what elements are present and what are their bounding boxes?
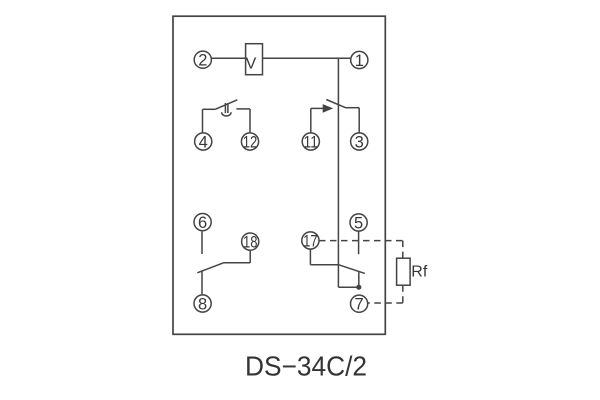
svg-text:DS−34C/2: DS−34C/2 (245, 350, 367, 381)
svg-text:18: 18 (243, 234, 258, 252)
svg-text:1: 1 (355, 52, 364, 70)
svg-text:8: 8 (198, 296, 207, 314)
svg-text:2: 2 (198, 52, 207, 70)
svg-text:3: 3 (355, 134, 364, 152)
svg-text:V: V (246, 56, 257, 73)
svg-text:12: 12 (243, 134, 258, 152)
svg-text:7: 7 (355, 296, 364, 314)
svg-text:17: 17 (303, 233, 318, 251)
svg-text:11: 11 (304, 134, 319, 152)
svg-text:Rf: Rf (411, 264, 428, 281)
svg-text:6: 6 (198, 214, 207, 232)
svg-text:4: 4 (199, 134, 208, 152)
svg-text:5: 5 (354, 215, 363, 233)
